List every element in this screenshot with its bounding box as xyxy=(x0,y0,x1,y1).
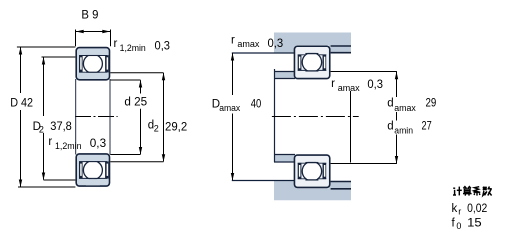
svg-text:r: r xyxy=(458,207,461,217)
svg-text:r: r xyxy=(48,136,52,148)
dimension B line with arrows xyxy=(76,31,111,33)
housing block top xyxy=(274,33,351,53)
raceway lines bottom section xyxy=(79,161,107,163)
svg-text:0,3: 0,3 xyxy=(90,138,106,150)
svg-text:d 25: d 25 xyxy=(124,96,147,108)
svg-text:0,3: 0,3 xyxy=(155,40,171,52)
outer+inner ring top section xyxy=(76,48,109,80)
housing shoulder line bottom (Da level) xyxy=(232,180,295,182)
shaft seat line top xyxy=(274,78,295,80)
housing bore line right of bearing top xyxy=(331,45,351,47)
bearing side face left xyxy=(75,79,77,155)
svg-text:amax: amax xyxy=(338,83,360,93)
svg-text:B 9: B 9 xyxy=(81,9,98,21)
ball bottom xyxy=(83,161,102,180)
dimension d extension lines xyxy=(110,79,140,81)
svg-text:r: r xyxy=(231,34,235,46)
centerline right drawing xyxy=(272,116,359,118)
svg-text:1,2min: 1,2min xyxy=(120,43,146,53)
svg-text:r: r xyxy=(114,38,118,50)
char ji xyxy=(453,187,462,196)
housing shoulder line top (Da level) xyxy=(232,52,295,54)
housing bore line right of bearing bottom xyxy=(331,188,351,190)
housing block bottom xyxy=(274,181,351,200)
svg-text:2: 2 xyxy=(154,123,159,133)
seal right (top section) xyxy=(105,55,109,72)
svg-text:amax: amax xyxy=(237,39,259,49)
raceway lines xyxy=(298,54,327,56)
svg-text:amax: amax xyxy=(394,103,416,113)
svg-text:0,02: 0,02 xyxy=(467,203,487,215)
svg-text:40: 40 xyxy=(251,98,262,110)
dimension D extension lines xyxy=(17,46,76,48)
dimension damax/damin line xyxy=(396,72,398,97)
svg-text:15: 15 xyxy=(467,218,482,230)
shaft shoulder block top xyxy=(274,71,296,78)
bearing top section (right drawing) xyxy=(294,46,329,78)
seal left (top section) xyxy=(79,55,83,72)
dimension Damax line xyxy=(232,53,234,95)
seal left (right bottom) xyxy=(298,163,302,179)
dimension d line xyxy=(140,80,142,93)
bearing side face right xyxy=(109,79,111,155)
centerline left drawing xyxy=(75,116,118,118)
ball top xyxy=(83,54,102,73)
ball (right top) xyxy=(302,53,321,72)
shaft shoulder block bottom xyxy=(274,155,296,162)
ramax extension line (right) xyxy=(350,91,352,163)
svg-text:amax: amax xyxy=(219,103,240,113)
svg-text:1,2min: 1,2min xyxy=(55,141,82,151)
seal right (right bottom) xyxy=(323,163,327,179)
char suan xyxy=(463,187,472,196)
interior cavity top xyxy=(82,56,106,72)
svg-text:29: 29 xyxy=(426,98,437,110)
shaft seat line bottom xyxy=(274,154,295,156)
shaft shoulder bottom edge (da level) xyxy=(274,161,295,163)
svg-text:27: 27 xyxy=(422,121,432,133)
svg-text:D 42: D 42 xyxy=(10,98,33,110)
heading (Chinese) drawn as strokes xyxy=(453,187,492,196)
damax/damin extension lines xyxy=(331,71,397,73)
dimension B extension lines xyxy=(75,30,77,47)
dimension D line xyxy=(20,47,22,93)
bearing bottom section (right drawing) xyxy=(294,155,329,187)
ball (right bottom) xyxy=(302,162,321,181)
svg-text:0,3: 0,3 xyxy=(268,38,284,50)
svg-text:amin: amin xyxy=(394,125,413,135)
svg-text:d: d xyxy=(387,98,393,110)
svg-text:d: d xyxy=(387,121,393,133)
seal right (right top) xyxy=(323,55,327,71)
shaft end face xyxy=(274,69,276,162)
svg-text:29,2: 29,2 xyxy=(165,121,187,133)
char xi xyxy=(474,187,481,196)
shaft shoulder top edge (da level) xyxy=(274,71,295,73)
dimension d2 extension lines xyxy=(110,72,163,74)
raceway lines xyxy=(298,162,327,164)
dimension D2 extension lines xyxy=(42,56,76,58)
raceway lines top section xyxy=(79,55,107,57)
svg-text:k: k xyxy=(452,203,458,215)
svg-text:0: 0 xyxy=(456,221,461,231)
svg-text:37,8: 37,8 xyxy=(50,121,72,133)
seal right (bottom section) xyxy=(105,161,109,178)
outer+inner ring bottom section xyxy=(76,154,109,186)
svg-text:2: 2 xyxy=(39,125,44,135)
dimension d2 line xyxy=(163,73,165,162)
svg-text:r: r xyxy=(331,78,335,90)
interior cavity bottom xyxy=(82,162,106,178)
seal left (right top) xyxy=(298,55,302,71)
svg-text:0,3: 0,3 xyxy=(367,79,383,91)
char shu xyxy=(483,187,492,196)
dimension D2 line xyxy=(43,57,45,116)
seal left (bottom section) xyxy=(79,161,83,178)
